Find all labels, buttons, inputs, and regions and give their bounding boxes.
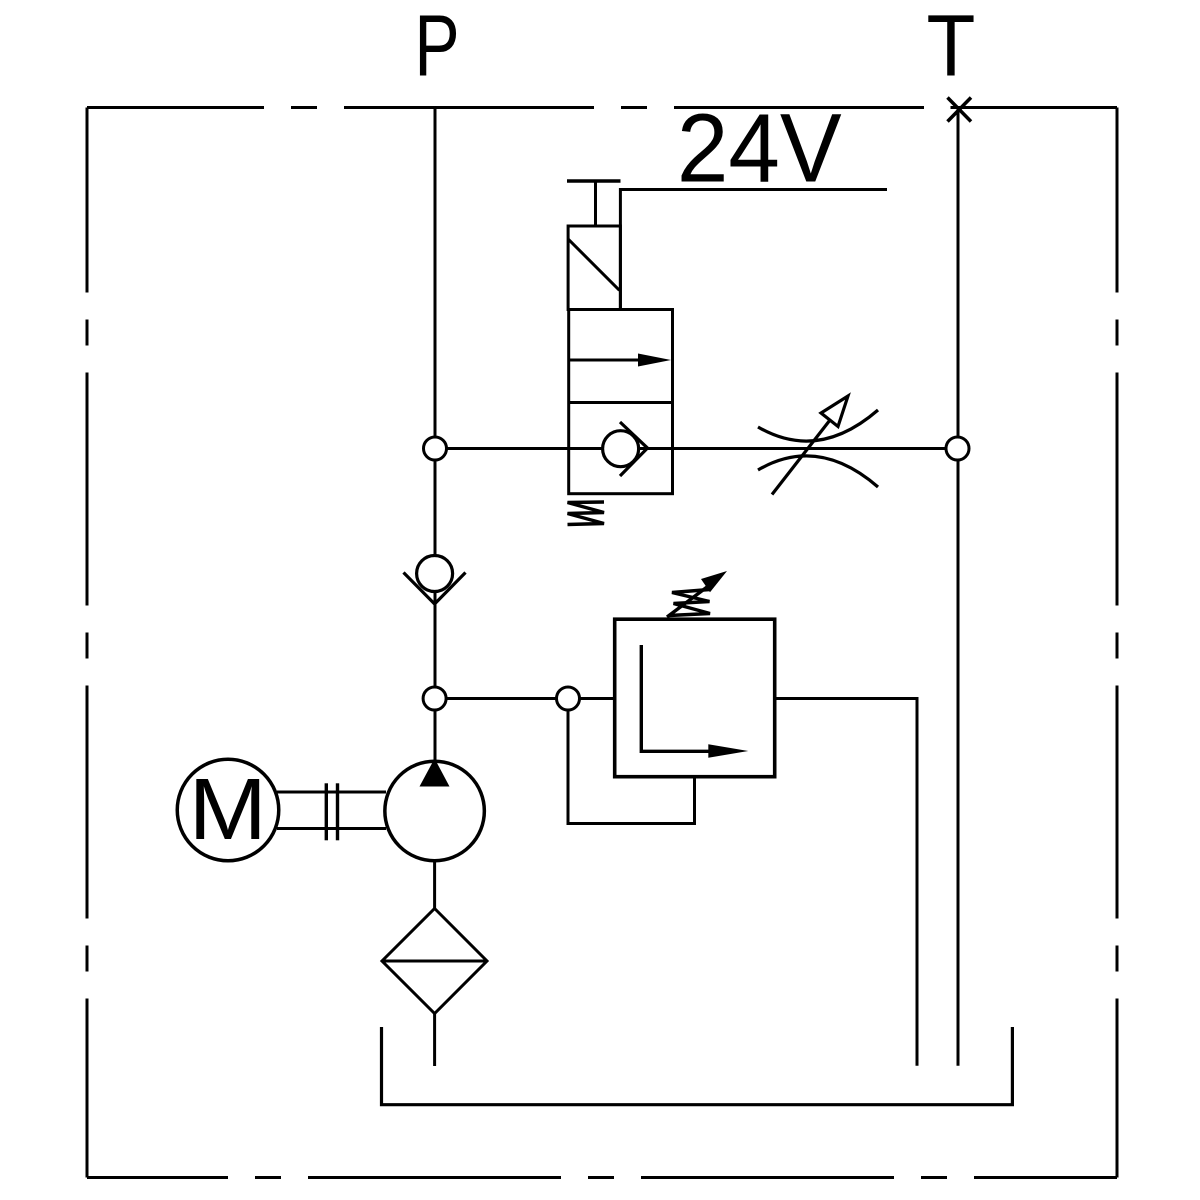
svg-text:T: T — [927, 0, 976, 94]
svg-text:24V: 24V — [677, 94, 842, 203]
svg-text:M: M — [189, 761, 267, 858]
svg-text:P: P — [414, 0, 459, 95]
